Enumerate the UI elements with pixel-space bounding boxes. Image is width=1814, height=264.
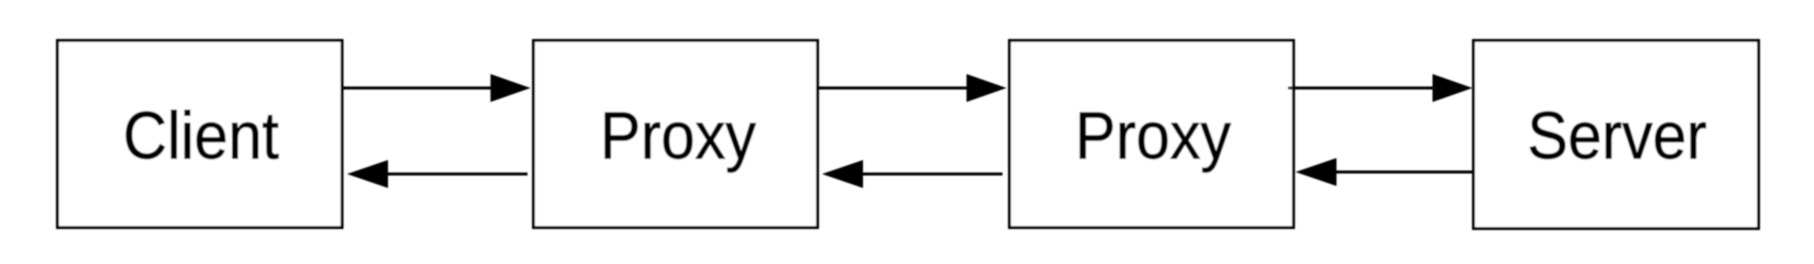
box Client (58, 41, 343, 228)
svg-text:Server: Server (1527, 98, 1707, 173)
svg-text:Proxy: Proxy (600, 98, 756, 173)
box Proxy 2 (1010, 41, 1294, 228)
svg-text:Client: Client (123, 98, 279, 173)
wire arrow Server to Proxy2 (bottom, leftward) (1336, 171, 1474, 174)
wire arrow Proxy1 to Client (bottom, leftward) (388, 173, 528, 176)
box Server (1474, 41, 1759, 229)
wire arrow Proxy2 to Proxy1 (bottom, leftward) (863, 173, 1003, 176)
wire arrow Proxy2 to Server (top, rightward) (1288, 87, 1433, 90)
svg-text:Proxy: Proxy (1075, 98, 1231, 173)
wire arrow Proxy1 to Proxy2 (top, rightward) (818, 87, 968, 90)
box Proxy 1 (534, 41, 818, 228)
wire arrow Client to Proxy1 (top, rightward) (342, 87, 491, 90)
